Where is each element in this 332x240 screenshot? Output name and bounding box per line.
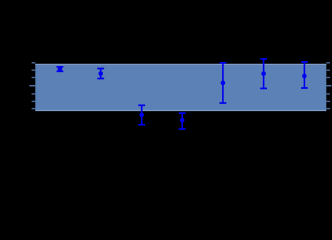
errorbar point 4 (179, 113, 186, 129)
errorbar point 6 (260, 59, 267, 88)
errorbar point 1 (57, 67, 64, 72)
errorbar point 2 (97, 69, 104, 79)
errorbar point 7 (301, 62, 308, 88)
band bottom edge line (35, 110, 326, 112)
left y-axis major tick (29, 85, 35, 87)
band top edge line (35, 63, 326, 65)
left y-axis minor ticks (32, 63, 36, 109)
errorbar point 5 (220, 63, 227, 103)
confidence band (35, 64, 326, 111)
right y-axis minor ticks (326, 63, 330, 109)
right y-axis major tick (326, 85, 331, 87)
errorbar point 3 (138, 105, 145, 124)
